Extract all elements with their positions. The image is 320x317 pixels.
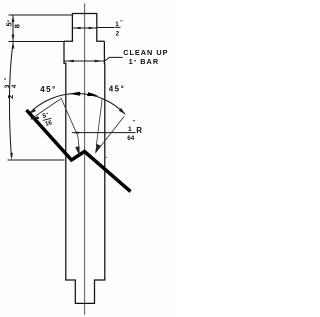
svg-text:2: 2 [6,95,15,99]
svg-text:64: 64 [127,135,135,142]
svg-text:1″ BAR: 1″ BAR [129,57,160,66]
svg-text:8: 8 [13,24,22,28]
svg-text:1: 1 [128,126,132,133]
svg-text:″: ″ [133,120,136,126]
svg-text:45°: 45° [109,85,126,94]
svg-text:4: 4 [11,84,18,88]
svg-text:2: 2 [116,30,120,37]
svg-text:″: ″ [120,20,123,26]
svg-text:1: 1 [115,21,119,28]
svg-text:″: ″ [5,77,11,80]
svg-text:R: R [136,126,142,135]
svg-text:16: 16 [44,119,53,128]
svg-text:45°: 45° [40,85,57,94]
